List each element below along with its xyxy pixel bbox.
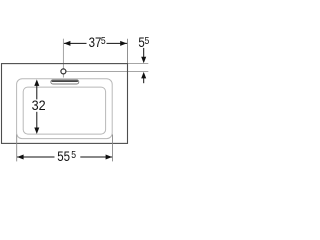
extension line: basin top edge extended right — [128, 63, 149, 65]
dimension 32: upper arrow (points up) — [34, 79, 39, 86]
svg-text:5: 5 — [145, 35, 150, 47]
extension line: right vertical from 37.5 dim to basin corner — [127, 39, 129, 64]
dimension 55.5: line right segment — [80, 156, 112, 158]
dimension 37.5: left arrow — [64, 41, 71, 46]
dimension 37.5: line left segment — [64, 42, 87, 44]
dimension 32: lower arrow (points down) — [36, 112, 38, 129]
bowl inner rim — [23, 87, 105, 134]
svg-text:32: 32 — [32, 97, 46, 113]
extension line: vertical centerline through tap hole — [62, 39, 64, 78]
dimension 37.5: right arrow — [120, 41, 127, 46]
overflow slot outline — [51, 80, 79, 84]
extension tick: bottom-left of 55.5 dim — [16, 135, 18, 162]
extension line: tap hole center extended right — [66, 70, 148, 72]
dimension 5.5: lower arrow (points up) — [141, 72, 146, 79]
tap hole — [61, 69, 66, 74]
washbasin outer outline — [2, 64, 128, 144]
dimension 55.5: line left segment — [17, 156, 54, 158]
svg-text:37: 37 — [89, 34, 102, 50]
dimension 55.5: left arrow — [17, 155, 24, 160]
dimension 5.5: upper arrow (points down) — [143, 48, 145, 58]
dimension 37.5: line right segment — [107, 42, 128, 44]
svg-text:5: 5 — [101, 35, 106, 47]
dimension 55.5: right arrow — [106, 155, 113, 160]
svg-text:5: 5 — [71, 149, 76, 161]
extension tick: bottom-right of 55.5 dim — [112, 135, 114, 162]
svg-text:55: 55 — [57, 148, 70, 164]
overflow slot shadow bar — [52, 80, 79, 82]
bowl outer rim — [17, 79, 113, 139]
